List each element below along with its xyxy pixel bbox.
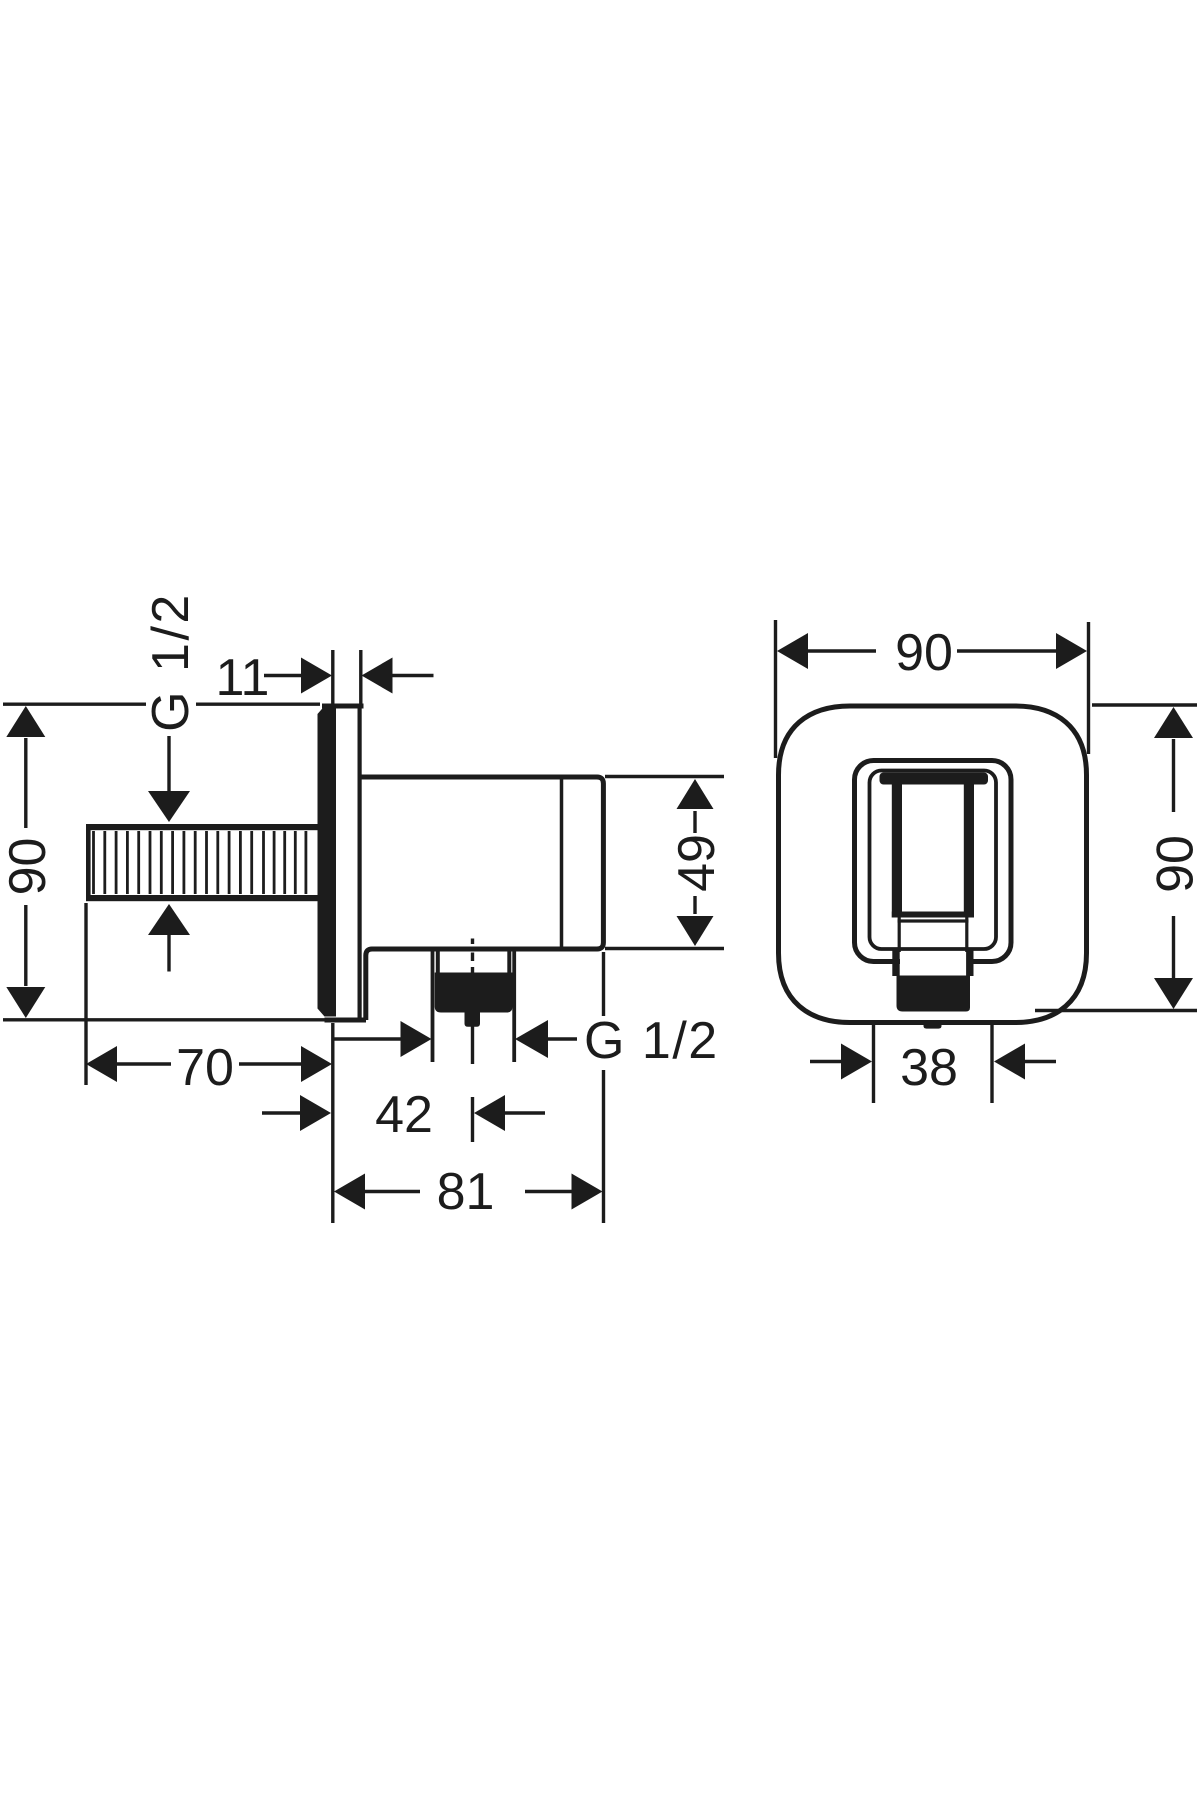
dimension 11 (plate thickness): [216, 649, 434, 707]
extension line plate back: [359, 650, 362, 705]
extension line right: [990, 1025, 993, 1103]
threaded pipe (side view, G1/2 inlet): [86, 824, 321, 901]
dimension 42 (outlet offset): [262, 1086, 545, 1144]
dimension G 1/2 (top label, rotated): [142, 592, 200, 822]
dimension 49 (body height): [605, 777, 726, 949]
extension line plate top: [3, 703, 146, 706]
lower cone bars: [892, 950, 899, 976]
dimension 81 (total depth): [334, 952, 604, 1223]
mask over holder bottom edge: [900, 954, 967, 965]
extension line nipple left: [431, 950, 435, 1062]
dimension 90 (left, plate height): [0, 704, 326, 1020]
cradle bottom bar: [892, 912, 974, 918]
dimension 90 (right, height): [1035, 705, 1200, 1011]
cradle right bar: [964, 779, 974, 918]
svg-text:G 1/2: G 1/2: [584, 1012, 719, 1070]
svg-text:38: 38: [900, 1039, 958, 1097]
centerline of nipple (dashed): [471, 939, 474, 1143]
svg-text:49: 49: [668, 834, 726, 892]
extension line left: [774, 620, 777, 758]
outlet body with holder (side view): [362, 777, 604, 1020]
dimension 90 (top, width): [776, 620, 1089, 758]
svg-text:90: 90: [895, 624, 953, 682]
cradle left bar: [892, 779, 902, 918]
extension line plate front: [331, 650, 334, 706]
svg-text:90: 90: [0, 838, 57, 896]
hose outlet nipple (side view): [435, 949, 513, 1027]
cone outline below cradle: [898, 917, 969, 952]
holder outer frame (front view): [855, 761, 1012, 962]
extension line wall surface: [331, 1023, 334, 1223]
extension line right: [1087, 622, 1090, 754]
outlet tip nub: [924, 1022, 942, 1029]
extension line body front: [602, 952, 605, 1016]
svg-text:11: 11: [216, 649, 270, 707]
svg-text:42: 42: [375, 1086, 433, 1144]
handshower cradle top bar: [880, 773, 989, 785]
dimension G 1/2 (bottom outlet thread): [334, 950, 719, 1070]
dimension 70 (pipe length): [86, 903, 333, 1223]
wall plate (escutcheon, side view): [318, 704, 367, 1023]
extension line plate bottom: [3, 1018, 326, 1021]
extension line left: [872, 1025, 875, 1103]
svg-text:70: 70: [176, 1039, 234, 1097]
escutcheon soft-square (front view): [779, 706, 1087, 1023]
svg-text:81: 81: [437, 1163, 495, 1221]
extension line top: [1092, 703, 1197, 706]
dimension 38 (outlet width): [810, 1025, 1056, 1103]
outlet nut (front view): [897, 976, 971, 1012]
arrow to pipe bottom (G 1/2): [148, 904, 190, 972]
svg-text:90: 90: [1147, 835, 1200, 893]
svg-text:G 1/2: G 1/2: [142, 592, 200, 732]
extension line nipple right: [512, 950, 516, 1062]
extension line bottom: [1035, 1009, 1197, 1012]
holder inner frame: [870, 771, 997, 950]
extension line pipe end: [84, 903, 87, 1085]
